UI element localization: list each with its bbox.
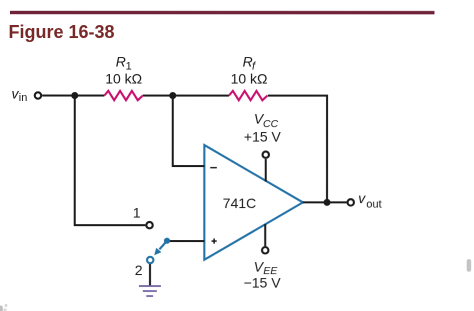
svg-text:out: out	[366, 199, 381, 211]
svg-text:in: in	[19, 92, 28, 104]
svg-text:v: v	[358, 190, 366, 206]
svg-text:741C: 741C	[223, 195, 256, 211]
svg-text:−15 V: −15 V	[244, 275, 282, 291]
svg-text:1: 1	[133, 204, 141, 220]
svg-text:Figure 16-38: Figure 16-38	[8, 22, 114, 42]
svg-text:2: 2	[135, 262, 143, 278]
svg-text:+15 V: +15 V	[244, 128, 282, 144]
svg-text:R: R	[116, 54, 126, 70]
svg-text:10 kΩ: 10 kΩ	[231, 71, 268, 87]
svg-text:10 kΩ: 10 kΩ	[105, 71, 142, 87]
